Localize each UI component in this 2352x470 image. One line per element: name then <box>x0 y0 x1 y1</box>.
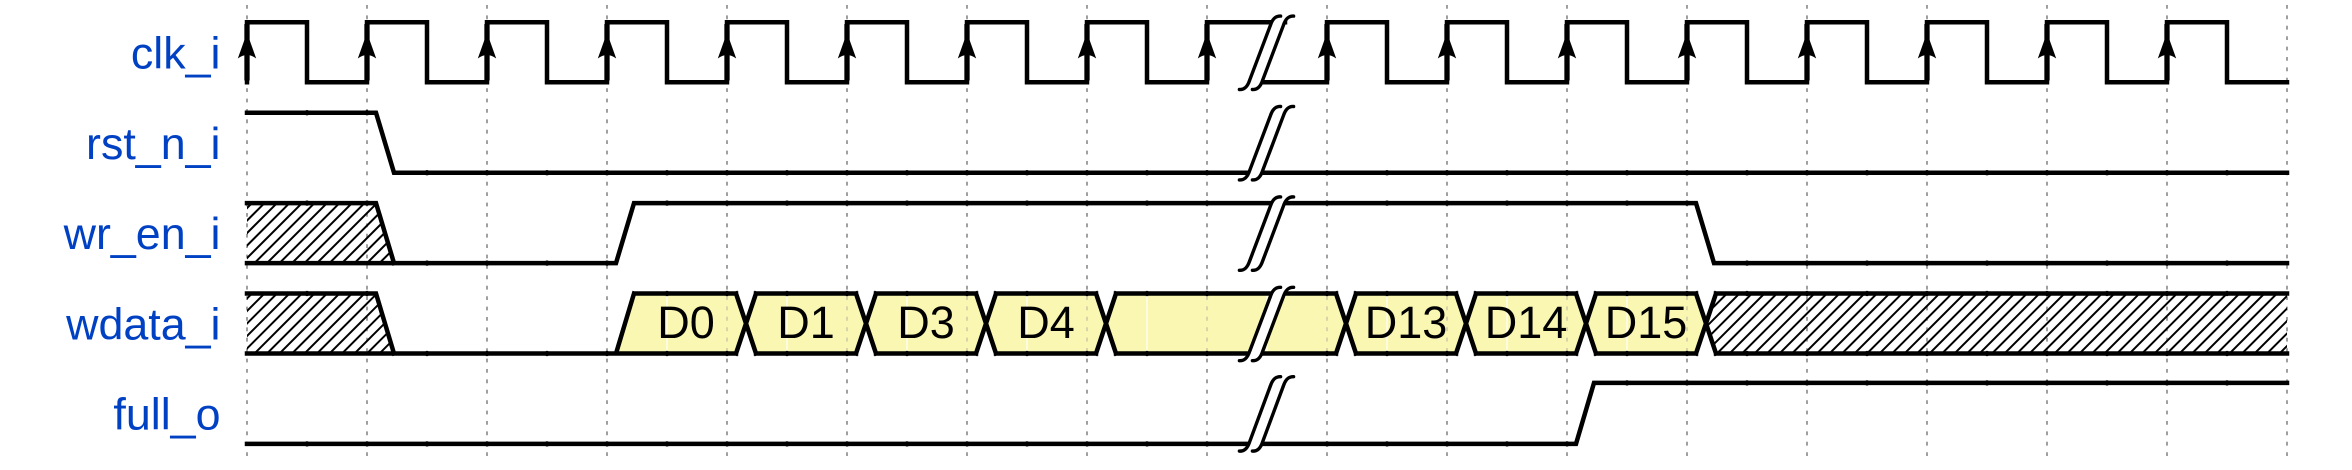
gap lane 1 <box>1239 106 1293 181</box>
svg-text:D3: D3 <box>897 297 955 348</box>
svg-text:clk_i: clk_i <box>131 28 221 78</box>
gap lane 2 <box>1239 196 1293 271</box>
data value labels <box>657 297 1687 348</box>
wdata_i data block D13 fill <box>1346 294 1466 354</box>
clk_i waveform <box>247 22 2287 82</box>
clk_i rising-edge arrows <box>238 24 2176 81</box>
wdata_i data block D14 fill <box>1466 294 1586 354</box>
brick joint ticks <box>306 110 2228 446</box>
svg-text:D0: D0 <box>657 297 715 348</box>
svg-text:full_o: full_o <box>113 390 220 440</box>
svg-text:D4: D4 <box>1017 297 1075 348</box>
svg-text:rst_n_i: rst_n_i <box>86 119 220 169</box>
wdata_i data block D4 fill <box>986 294 1106 354</box>
full_o waveform <box>247 383 2287 444</box>
wdata_i data block D1 fill <box>746 294 866 354</box>
wdata_i data block D15 fill <box>1586 294 1706 354</box>
svg-text:D13: D13 <box>1365 297 1448 348</box>
gap lane 3 <box>1239 287 1293 362</box>
svg-text:D15: D15 <box>1605 297 1688 348</box>
wdata_i waveform outline <box>247 294 2287 354</box>
wdata_i data block D3 fill <box>866 294 986 354</box>
svg-text:D1: D1 <box>777 297 835 348</box>
svg-text:wdata_i: wdata_i <box>65 300 220 350</box>
wr_en_i: left unknown (hatched) region fill <box>179 202 454 264</box>
svg-text:D14: D14 <box>1485 297 1568 348</box>
gap lane 4 <box>1239 376 1293 452</box>
gap lane 0 <box>1239 15 1293 90</box>
wdata_i data block D0 fill <box>616 294 746 354</box>
signal name labels <box>63 28 221 439</box>
brick seams inside data blocks <box>667 296 1687 351</box>
wdata_i: right unknown (hatched) region fill <box>1641 293 2341 355</box>
wdata_i: left unknown (hatched) region fill <box>179 293 454 355</box>
wr_en_i waveform <box>247 203 2287 263</box>
rst_n_i waveform <box>247 113 2287 173</box>
svg-text:wr_en_i: wr_en_i <box>63 209 221 259</box>
wdata_i data block (unlabelled) fill <box>1106 294 1346 354</box>
